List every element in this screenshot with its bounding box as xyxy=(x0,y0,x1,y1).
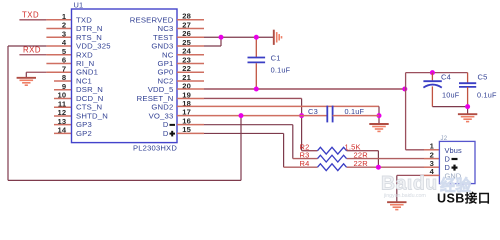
svg-text:GND1: GND1 xyxy=(76,68,98,77)
svg-text:RI_N: RI_N xyxy=(76,59,94,68)
wire pin 24 stub xyxy=(177,54,204,56)
svg-text:C5: C5 xyxy=(478,73,488,82)
svg-text:6: 6 xyxy=(62,56,66,65)
wire Vbus to pin 1 xyxy=(406,149,424,151)
wire C1 bottom lead xyxy=(255,63,257,89)
svg-text:GND2: GND2 xyxy=(151,103,173,112)
svg-text:D: D xyxy=(163,120,169,129)
svg-text:GP3: GP3 xyxy=(76,120,92,129)
wire pin 12 stub xyxy=(54,115,72,117)
wire RXD net to pin 5 xyxy=(19,54,46,56)
svg-text:13: 13 xyxy=(57,117,66,126)
junction VDD5-Vbus rail xyxy=(402,87,407,92)
wire GND1 pin 7 xyxy=(26,71,46,73)
wire TEST net xyxy=(177,36,204,38)
wire pin 27 stub xyxy=(177,28,204,30)
wire R2 to D+ junction xyxy=(377,151,379,168)
svg-text:C1: C1 xyxy=(271,54,281,63)
resistor R4 22R xyxy=(284,164,424,171)
svg-text:1: 1 xyxy=(430,142,435,151)
wire pin 10 stub xyxy=(54,97,72,99)
svg-text:DCD_N: DCD_N xyxy=(76,94,103,103)
ground C4 C5 xyxy=(458,114,477,121)
junction VO_33 loop xyxy=(239,113,244,118)
junction RESET_N-VO_33 xyxy=(299,113,304,118)
ground sideways at TEST xyxy=(274,30,282,45)
svg-text:TEST: TEST xyxy=(153,33,174,42)
wire GND3 to TEST xyxy=(177,45,204,47)
wire pin 28 stub xyxy=(177,19,204,21)
svg-text:12: 12 xyxy=(57,108,66,117)
svg-text:NC2: NC2 xyxy=(158,76,174,85)
wire pin 14 stub xyxy=(54,132,72,134)
svg-text:DTR_N: DTR_N xyxy=(76,24,103,33)
wire pin 21 stub xyxy=(177,80,204,82)
wire pin 11 stub xyxy=(54,106,72,108)
capacitor C4 10uF xyxy=(423,81,441,87)
ground GND1 xyxy=(17,78,36,85)
wire pin 9 stub xyxy=(54,89,72,91)
svg-text:VO_33: VO_33 xyxy=(149,111,174,120)
capacitor C3 xyxy=(327,106,332,123)
wire Vbus rail top xyxy=(406,72,468,74)
wire VDD_325 pin 4 xyxy=(8,45,46,47)
wire R4 to USB pin 3 xyxy=(424,166,439,168)
svg-text:10uF: 10uF xyxy=(442,91,460,100)
junction C1-TEST xyxy=(254,35,259,40)
svg-text:GP2: GP2 xyxy=(76,129,92,138)
svg-text:经验: 经验 xyxy=(440,176,472,195)
svg-text:0.1uF: 0.1uF xyxy=(271,66,291,75)
svg-text:4: 4 xyxy=(62,38,67,47)
pin label D- USB xyxy=(445,154,458,163)
svg-text:U1: U1 xyxy=(74,1,84,10)
wire C4 bottom lead xyxy=(431,86,433,106)
svg-text:C4: C4 xyxy=(441,73,451,82)
wire RESET_N xyxy=(177,97,204,99)
wire C5 bottom lead xyxy=(467,87,469,107)
wire D+ route xyxy=(177,132,204,134)
svg-text:0.1uF: 0.1uF xyxy=(477,91,497,100)
svg-text:14: 14 xyxy=(57,126,66,135)
svg-text:3: 3 xyxy=(62,29,66,38)
svg-text:VDD_325: VDD_325 xyxy=(76,42,111,51)
wire C4-C5 ground rail xyxy=(432,106,467,108)
svg-text:10: 10 xyxy=(57,91,66,100)
svg-text:22R: 22R xyxy=(354,159,369,168)
svg-text:8: 8 xyxy=(62,73,66,82)
svg-text:NC: NC xyxy=(162,50,174,59)
junction GND2-C3 xyxy=(377,113,382,118)
wire VDD_5 bus xyxy=(177,88,204,90)
pin label D- xyxy=(163,120,175,129)
wire GND2 xyxy=(177,105,379,107)
svg-text:TXD: TXD xyxy=(22,11,39,20)
wire R3 to USB pin 2 xyxy=(424,158,439,160)
junction C5 ground xyxy=(465,104,470,109)
resistor R2 1.5K xyxy=(302,147,379,154)
wire pin 3 stub xyxy=(46,36,71,38)
pin label D+ xyxy=(163,129,175,138)
wire Vbus vertical xyxy=(405,73,407,150)
svg-text:TXD: TXD xyxy=(76,15,92,24)
wire D- route xyxy=(177,124,204,126)
wire pin 23 stub xyxy=(177,63,204,65)
svg-text:D: D xyxy=(163,129,169,138)
wire C4 top lead xyxy=(431,73,433,81)
svg-text:PL2303HXD: PL2303HXD xyxy=(133,144,177,153)
junction R2-D+ xyxy=(376,165,381,170)
wire C3 right xyxy=(333,115,379,117)
wire pin 6 stub xyxy=(46,63,71,65)
svg-text:RESET_N: RESET_N xyxy=(137,94,174,103)
wire left rail down xyxy=(7,46,9,180)
svg-text:2: 2 xyxy=(62,21,66,30)
svg-text:9: 9 xyxy=(62,82,66,91)
svg-text:1: 1 xyxy=(62,12,67,21)
wire C1 top lead xyxy=(255,37,257,57)
svg-text:NC3: NC3 xyxy=(158,24,174,33)
wire loop up to VO_33 xyxy=(240,116,242,181)
wire VO_33 xyxy=(177,115,327,117)
connector J2 USB body xyxy=(439,141,475,183)
pin label D+ USB xyxy=(445,163,458,172)
svg-text:CTS_N: CTS_N xyxy=(76,103,102,112)
wire USB GND xyxy=(424,174,439,176)
wire pin 8 stub xyxy=(54,80,72,82)
svg-text:RXD: RXD xyxy=(23,45,41,54)
wire GND1 drop xyxy=(25,72,27,77)
svg-text:J2: J2 xyxy=(441,136,448,142)
wire pin 2 stub xyxy=(46,28,71,30)
resistor R3 22R xyxy=(293,155,424,162)
ground at C3 xyxy=(369,124,388,131)
junction C1-VDD5 xyxy=(254,87,259,92)
svg-text:11: 11 xyxy=(58,99,67,108)
svg-text:C3: C3 xyxy=(308,107,318,116)
ground USB xyxy=(387,202,406,209)
wire TXD net to pin 1 xyxy=(19,19,46,21)
svg-text:RESERVED: RESERVED xyxy=(130,15,174,24)
junction GND3-TEST xyxy=(219,35,224,40)
wire pin 22 stub xyxy=(177,71,204,73)
op-amp U1 PL2303HXD IC body xyxy=(72,9,178,143)
svg-text:VDD_5: VDD_5 xyxy=(148,85,174,94)
wire pin 13 stub xyxy=(54,124,72,126)
svg-text:5: 5 xyxy=(62,47,67,56)
svg-text:R4: R4 xyxy=(300,159,310,168)
svg-text:NC1: NC1 xyxy=(76,76,92,85)
capacitor C5 0.1uF xyxy=(459,83,476,87)
svg-text:Baιdu: Baιdu xyxy=(381,173,438,195)
watermark baidu xyxy=(381,173,472,200)
wire bottom loop xyxy=(8,179,241,181)
svg-text:RTS_N: RTS_N xyxy=(76,33,102,42)
capacitor C1 xyxy=(248,58,266,63)
svg-text:SHTD_N: SHTD_N xyxy=(76,111,108,120)
junction C4 top xyxy=(430,70,435,75)
svg-text:0.1uF: 0.1uF xyxy=(345,107,365,116)
wire C5 top lead xyxy=(467,73,469,83)
svg-text:GND3: GND3 xyxy=(151,42,173,51)
svg-text:RXD: RXD xyxy=(76,50,93,59)
svg-text:DSR_N: DSR_N xyxy=(76,85,103,94)
svg-text:7: 7 xyxy=(62,64,66,73)
svg-text:GP1: GP1 xyxy=(158,59,174,68)
svg-text:jingyan.baidu.com: jingyan.baidu.com xyxy=(383,193,426,199)
svg-text:GP0: GP0 xyxy=(158,68,174,77)
